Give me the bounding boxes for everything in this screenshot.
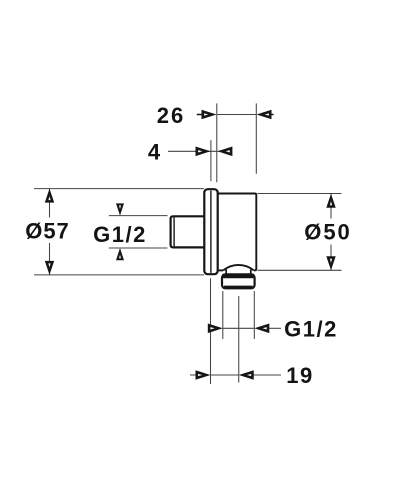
- diameter 57 bottom extension line: [34, 274, 204, 276]
- svg-text:19: 19: [286, 363, 313, 388]
- svg-text:4: 4: [148, 139, 161, 164]
- bottom G1/2 dimension line: [223, 327, 255, 329]
- body cylinder top edge: [218, 194, 257, 271]
- inlet spigot chamfer line: [173, 217, 175, 246]
- extension line top-right of 26 dim (x=256.3): [255, 103, 257, 173]
- diameter 57 down arrowhead: [45, 261, 54, 275]
- outlet nut body: [222, 274, 255, 288]
- extension line of 4 dim (x=210.9): [210, 140, 212, 181]
- wall flange inner line: [210, 191, 212, 273]
- diameter 50 up arrowhead: [326, 194, 335, 208]
- wall flange (escutcheon) outline: [204, 189, 217, 274]
- bottom extension line from wall face (x=210.5): [210, 278, 212, 384]
- dimension 19 right arrowhead: [239, 370, 254, 380]
- outlet centre line (x=238.75): [238, 296, 240, 383]
- svg-text:Ø50: Ø50: [304, 220, 352, 245]
- dimension 4 left arrowhead: [196, 147, 211, 157]
- diameter 57 up arrowhead: [45, 189, 54, 203]
- dimension 26 right arrowhead: [257, 110, 272, 120]
- svg-text:G1/2: G1/2: [284, 316, 338, 341]
- dimension 19 line: [211, 374, 239, 376]
- G1/2 spigot bottom extension line: [109, 247, 168, 249]
- dimension 26 line tails: [217, 114, 257, 116]
- svg-text:26: 26: [157, 103, 185, 128]
- bottom G1/2 left arrowhead: [208, 324, 223, 334]
- G1/2 up arrowhead below bottom line: [116, 248, 124, 260]
- diameter 57 dimension line segments: [49, 189, 51, 218]
- inlet spigot outline: [171, 216, 205, 247]
- outlet nut bottom edge thick: [224, 286, 253, 289]
- body cylinder bottom edge left segment: [218, 269, 224, 271]
- diameter 50 dimension line segments: [330, 194, 332, 219]
- diameter 50 down arrowhead: [326, 256, 335, 270]
- diameter 50 top extension line: [258, 193, 342, 195]
- bottom extension line right of outlet thread (x=254.3): [253, 291, 255, 339]
- bottom extension line left of outlet thread (x=222.8): [222, 291, 224, 339]
- diameter 57 top extension line: [34, 188, 204, 190]
- G1/2 down arrowhead above top line: [116, 203, 124, 215]
- G1/2 spigot top extension line: [109, 215, 168, 217]
- outlet collar dome: [223, 265, 254, 271]
- diameter 50 bottom extension line: [258, 269, 342, 271]
- extension line top-left of 26 dim (x=216.8): [216, 103, 218, 182]
- outlet nut band: [222, 274, 255, 279]
- dimension 4 right arrowhead: [217, 147, 232, 157]
- dimension 19 left arrowhead: [196, 370, 211, 380]
- dimension 26 left arrowhead: [202, 110, 217, 120]
- svg-text:Ø57: Ø57: [25, 218, 70, 243]
- svg-text:G1/2: G1/2: [93, 222, 147, 247]
- dimension 4 leader and tails: [168, 150, 217, 152]
- bottom G1/2 right arrowhead: [254, 324, 269, 334]
